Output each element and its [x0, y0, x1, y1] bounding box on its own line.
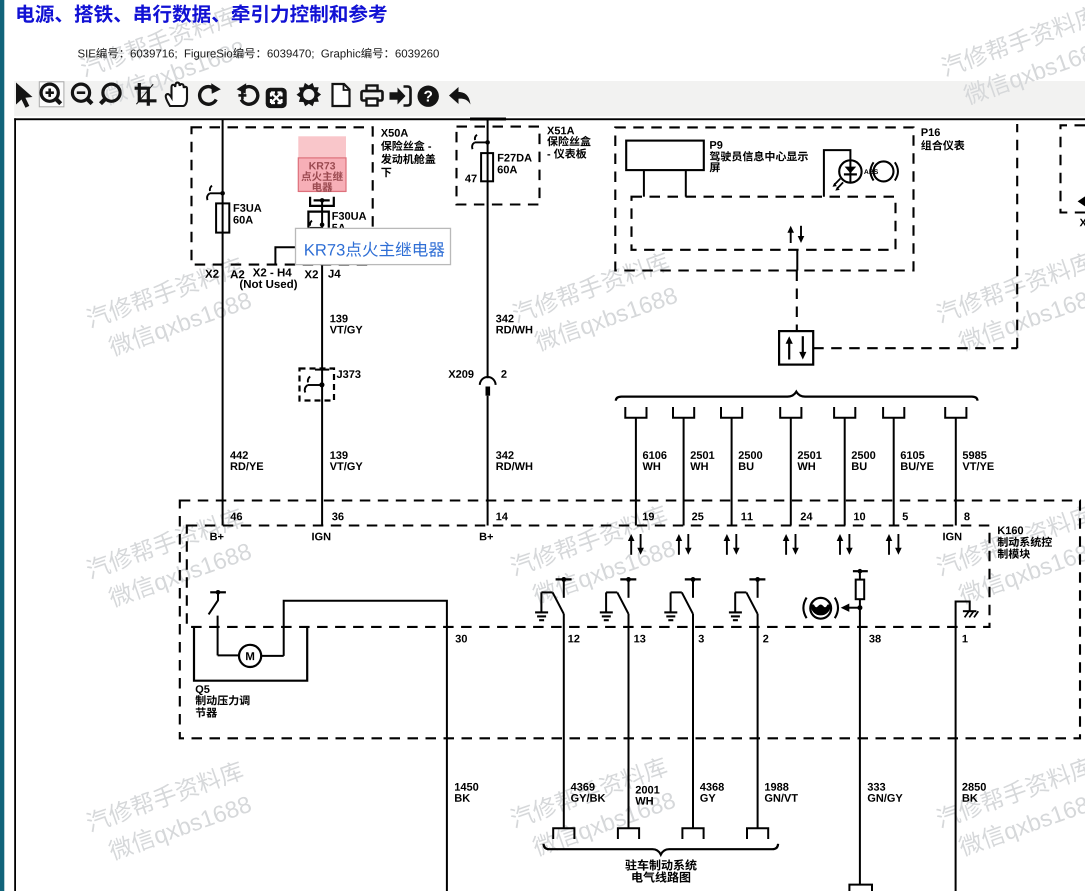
dashed link rising at x=1017: [1016, 124, 1018, 348]
label F3UA 60A: [234, 204, 240, 212]
wire into K160 (top row 1): [635, 418, 637, 526]
wire from resistor to pin 38: [859, 599, 861, 884]
off-page arrow top right: [1078, 196, 1085, 206]
wire to park brake system (1988): [757, 614, 759, 828]
junction dot at F27DA feed: [485, 140, 490, 145]
serial data gateway box: [779, 331, 813, 365]
junction dot at arrow node: [857, 605, 862, 610]
fuse box X50A (engine compartment) dashed outline: [192, 127, 373, 264]
ground symbol for switch at x=564: [535, 611, 548, 613]
ABS indicator LED circuit wire: [824, 150, 851, 197]
splice J373 connector hook: [308, 377, 310, 383]
relay KR73 highlight (search hit): [298, 136, 346, 192]
wire into K160 (top row 7): [955, 418, 957, 526]
wire from motor to K160 pin 30: [284, 601, 447, 891]
connector symbol above K160 pin wire 7: [945, 407, 966, 418]
switch contact (K160 internal) at pin wire x=758: [749, 578, 765, 580]
pump motor M: [218, 654, 239, 656]
wire label 6105 BU/YE: [901, 451, 906, 459]
wire label 1450 BK: [455, 783, 460, 791]
connector symbol above K160 pin wire 5: [834, 407, 855, 418]
wire label 2001 WH: [636, 786, 641, 794]
resistor (warning lamp driver): [856, 580, 865, 600]
connector at wire 4369: [553, 828, 574, 839]
switch contact (K160 internal) at pin wire x=564: [556, 578, 572, 580]
label X209: [448, 370, 455, 378]
wire label 342 RD/WH lower: [496, 451, 501, 459]
junction dot under relay: [320, 223, 325, 228]
wire KR73 output to K160 pin 36: [321, 225, 323, 526]
connector at wire 4368: [682, 828, 703, 839]
K160 top pin numbers: [230, 513, 236, 521]
label J373: [337, 370, 342, 378]
junction dot at F3UA feed: [220, 191, 225, 196]
wire label 4369 GY/BK: [571, 783, 577, 791]
stub wire X2-H4 (not used): [275, 247, 322, 264]
brake system control module K160 outer dashed box: [180, 501, 1080, 739]
label X50A 保险丝盒-发动机舱盖下: [381, 129, 388, 137]
label P16 组合仪表: [922, 128, 928, 136]
wire label 342 RD/WH upper: [496, 315, 501, 323]
fuse F30UA 5A label: [332, 212, 338, 220]
component box at end of 333 wire (clipped): [849, 885, 872, 891]
label ABS: [864, 169, 869, 174]
connector terminal at F27DA feed: [475, 135, 477, 140]
wire to park brake system (4368): [692, 614, 694, 828]
indicator lamp parentheses and circle: [870, 162, 873, 180]
wire label 5985 VT/YE: [963, 451, 968, 459]
ABS indicator LED: [839, 160, 861, 182]
wire label 333 GN/GY: [868, 783, 873, 791]
switch contact (K160 internal) at pin wire x=628: [620, 578, 636, 580]
bidirectional signal arrows at wire x=636: [630, 540, 632, 555]
underbrace park brake circuit: [544, 844, 779, 855]
wire label 139 VT/GY upper: [330, 315, 335, 323]
connector symbol above K160 pin wire 1: [625, 407, 646, 418]
clipped dashed box top right: [1061, 125, 1085, 212]
wire into K160 (top row 4): [790, 418, 792, 526]
wire to park brake system (2001): [628, 614, 630, 828]
wire label 1988 GN/VT: [765, 783, 770, 791]
wire from contact to pump motor: [217, 616, 219, 656]
off-page tick at top border: [470, 118, 506, 121]
resistor feed contact: [853, 570, 868, 572]
driver info display P9 box: [626, 141, 704, 171]
label K160 制动系统控制模块: [998, 527, 1005, 535]
bidirectional signal arrows at wire x=732: [726, 540, 728, 555]
connector symbol above K160 pin wire 2: [673, 407, 694, 418]
bidirectional signal arrows at wire x=845: [839, 540, 841, 555]
wire 342 RD/WH to K160 pin 14: [487, 396, 489, 526]
label pin 2 of X209: [501, 370, 506, 378]
wire 2850 BK from pin 1 to ground: [955, 627, 957, 891]
P9 connection legs: [643, 170, 645, 197]
wire from battery through F3UA to K160 pin 46: [222, 119, 224, 526]
connector at wire 1988: [747, 828, 768, 839]
wire label 2501 WH: [798, 451, 803, 459]
wire into K160 (top row 6): [893, 418, 895, 526]
tooltip KR73点火主继电器: [296, 228, 451, 264]
ground symbol for switch at x=628: [600, 611, 613, 613]
Q5 pump relay contact: [210, 591, 226, 593]
LED emission arrows: [835, 179, 841, 185]
serial data arrows in P16: [790, 232, 792, 243]
fuse F27DA 60A: [481, 153, 493, 181]
label P9 驾驶员信息中心显示屏: [710, 141, 716, 149]
K160 bottom pin numbers: [455, 635, 460, 643]
connector symbol above K160 pin wire 6: [883, 407, 904, 418]
wire label 2500 BU: [739, 451, 744, 459]
wire label 2501 WH: [691, 451, 696, 459]
pin labels X2 A2 X2-H4 X2 J4: [205, 270, 212, 278]
wire label 2850 BK: [962, 783, 967, 791]
net labels B+/IGN: [210, 533, 217, 541]
bidirectional signal arrows at wire x=894: [888, 540, 890, 555]
splice J373 junction dot: [319, 382, 324, 387]
splice J373 tick: [315, 369, 329, 371]
module internal ground at pin 1: [956, 602, 970, 627]
connector terminal at F3UA feed: [210, 186, 212, 191]
label F27DA 60A: [498, 154, 504, 162]
P16 internal bus dashed box: [632, 197, 896, 250]
overbrace for serial data branch: [616, 392, 978, 401]
label KR73 点火主继电器 (highlighted red): [309, 162, 316, 169]
serial data wire from P16: [796, 250, 798, 271]
instrument cluster P16 dashed outline: [615, 127, 913, 270]
wire label 139 VT/GY lower: [330, 451, 335, 459]
label X51A 保险丝盒-仪表板: [547, 127, 554, 135]
label Q5 制动压力调节器: [196, 685, 204, 695]
fuse F3UA 60A: [216, 203, 229, 232]
bidirectional signal arrows at wire x=684: [678, 540, 680, 555]
connector hook under relay: [310, 221, 312, 226]
clipped label X...: [1080, 219, 1085, 227]
wire into K160 (top row 3): [731, 418, 733, 526]
K160 inner dashed box: [187, 526, 990, 627]
ground symbol for switch at x=693: [664, 611, 677, 613]
pin label 47: [465, 175, 471, 183]
connector at wire 2001: [618, 828, 639, 839]
bidirectional signal arrows at wire x=791: [785, 540, 787, 555]
wire into K160 (top row 2): [683, 418, 685, 526]
wire label 6106 WH: [643, 451, 648, 459]
wire into K160 (top row 5): [844, 418, 846, 526]
in-line connector X209 pin 2: [480, 377, 496, 385]
dashed link from gateway to right: [813, 347, 1017, 349]
wire label 442 RD/YE: [230, 451, 236, 459]
serial data dashed link down to gateway: [796, 271, 798, 332]
fuse box X51A (instrument panel) dashed outline: [457, 127, 540, 205]
gateway arrows: [788, 343, 790, 360]
splice J373 dashed box: [300, 369, 335, 401]
label 驻车制动系统 电气线路图: [625, 859, 636, 870]
relay KR73 contact symbol: [310, 197, 334, 206]
brake warning indicator symbol: [810, 598, 831, 619]
wire from B+ through F27DA to X209: [487, 119, 489, 378]
connector symbol above K160 pin wire 4: [780, 407, 801, 418]
Q5 housing outline: [194, 627, 307, 681]
wire label 4368 GY: [700, 783, 706, 791]
arrow from resistor node to brake indicator: [849, 607, 860, 609]
wire label 2500 BU: [852, 451, 857, 459]
wire to park brake system (4369): [563, 614, 565, 828]
switch contact (K160 internal) at pin wire x=693: [685, 578, 701, 580]
ground symbol for switch at x=758: [729, 611, 742, 613]
connector symbol above K160 pin wire 3: [721, 407, 742, 418]
